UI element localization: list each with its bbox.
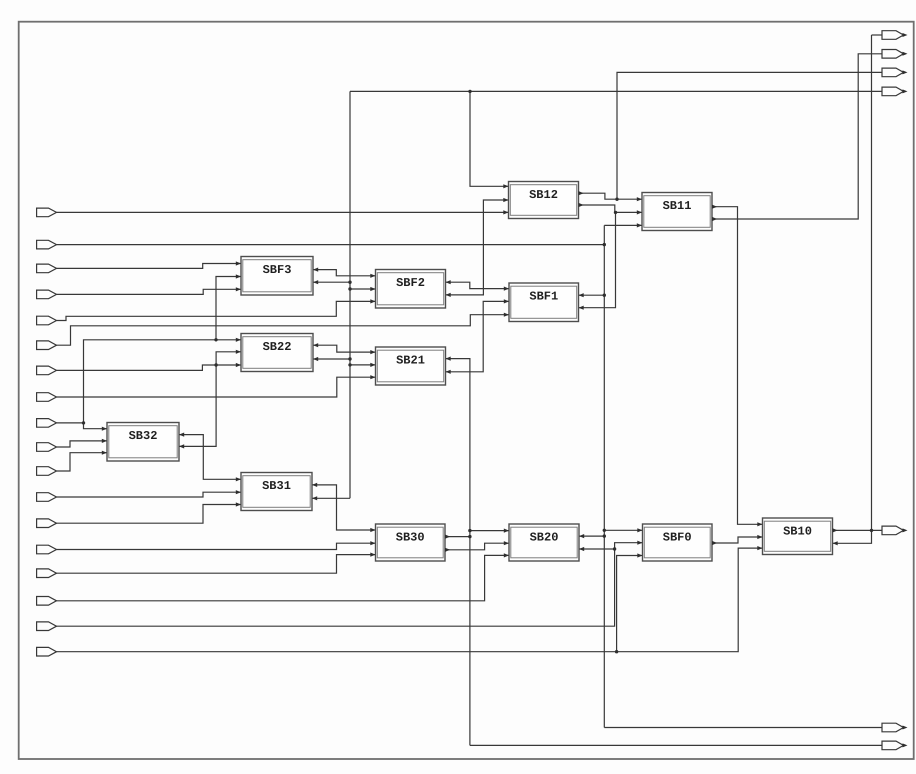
wire net P7: branch up to SB22 pin2	[216, 352, 241, 365]
junction SB10out/O1	[870, 529, 873, 532]
arrow into SB31 pin1	[236, 477, 241, 481]
wire to output port O1	[872, 34, 883, 36]
wire net P10: port to SB32 pin2	[57, 441, 108, 447]
input port P9	[37, 419, 57, 428]
wire net P8: port to SB21 pin3	[57, 377, 376, 397]
arrow into SB22 pin2	[236, 350, 241, 354]
wire trunk branch to SBF2 pin2	[350, 288, 376, 290]
wire net P3: port to SBF3 pin1	[57, 264, 242, 269]
arrow into SB32 right pin2	[179, 444, 184, 448]
block SB21	[376, 347, 446, 385]
arrow into SB22 right pin2	[313, 357, 318, 361]
input port P6	[37, 341, 57, 350]
arrow into SB11 pin2	[637, 210, 642, 214]
junction trunk/SB21	[348, 363, 351, 366]
wire net P1: port to SB12 pin3	[57, 211, 509, 213]
wire net P5: port to SBF2 pin3	[57, 301, 376, 320]
arrow into SB20 pin3	[504, 553, 509, 557]
output port O2	[882, 50, 908, 59]
input port P1	[37, 208, 57, 217]
wire net P2: port to riser	[57, 244, 605, 246]
wire net P9: branch to SB32 pin1	[84, 423, 108, 429]
block SBF3	[241, 257, 313, 296]
wire net P2: branch to SB11 pin3	[604, 224, 642, 226]
junction P18/SBF0	[615, 650, 618, 653]
wire net P12: port to SB31 pin2	[57, 492, 242, 497]
junction P7/SB32	[214, 363, 217, 366]
wire SBF3 right pin1 to SBF2 pin1	[313, 270, 376, 276]
arrow into SB21 pin3	[370, 375, 375, 379]
block SBF0	[643, 524, 713, 561]
arrow into SB21 pin1	[370, 350, 375, 354]
svg-text:SB32: SB32	[129, 429, 158, 443]
arrow into SB31 pin2	[236, 490, 241, 494]
arrow into SB10 right pin2	[833, 541, 838, 545]
junction P2/SBF0	[603, 529, 606, 532]
arrow into SB12 pin1	[503, 184, 508, 188]
arrow into SB30 pin1	[370, 528, 375, 532]
junction trunk/SB12	[468, 90, 471, 93]
input port P10	[37, 443, 57, 452]
wire SBF2 right pin1 to SBF1 pin1	[446, 282, 510, 288]
arrow into SB32 pin2	[102, 439, 107, 443]
wire SB12 out2 to SB11 pin2	[579, 205, 643, 212]
wire trunk vertical x=350	[349, 91, 351, 498]
arrow into SB32 pin3	[102, 451, 107, 455]
svg-text:SB22: SB22	[263, 340, 292, 354]
arrow into SB11 pin3	[637, 223, 642, 227]
arrow into SB20 right pin2	[579, 547, 584, 551]
arrow into SBF1 right pin1	[579, 293, 584, 297]
wire SB30 out2 to SB20 pin2	[445, 543, 509, 550]
wire net P11: port to SB32 pin3	[57, 453, 108, 471]
arrow into SBF3 pin2	[236, 274, 241, 278]
svg-text:SBF0: SBF0	[663, 531, 692, 545]
arrow SB11 out2	[712, 217, 717, 221]
arrow into SB10 pin3	[757, 546, 762, 550]
wire net P14: port to SB30 pin2	[57, 543, 376, 549]
wire net P4: port to SBF3 pin3	[57, 289, 242, 294]
junction P9/SB22	[214, 338, 217, 341]
wire SBF0 out to SB10 pin2	[712, 537, 763, 543]
wire SB21 out2 to SBF1 pin2	[446, 301, 510, 371]
wire SB21 out1 vertical trunk x=470	[446, 359, 470, 746]
arrow SB21 out1	[446, 357, 451, 361]
block SBF2	[376, 270, 446, 309]
wire net P15: port to SB30 pin3	[57, 555, 376, 574]
arrow SB31 out1	[312, 483, 317, 487]
output port O5	[882, 526, 908, 535]
input port P12	[37, 493, 57, 502]
wire trunk branch to SB21 pin2	[350, 364, 376, 366]
svg-text:SB21: SB21	[396, 354, 425, 368]
junction trunk/SB22	[348, 357, 351, 360]
input port P17	[37, 622, 57, 631]
junction P2/SB11	[603, 243, 606, 246]
wire SB10 out1 to output port O5	[833, 529, 883, 531]
arrow SBF2 out1	[446, 280, 451, 284]
arrow SB12 out2	[579, 203, 584, 207]
arrow into SB20 right pin1	[579, 534, 584, 538]
input port P13	[37, 519, 57, 528]
svg-text:SB12: SB12	[529, 188, 558, 202]
output port O7	[882, 741, 908, 750]
arrow SB32 out1	[179, 433, 184, 437]
arrow SB30 out1	[445, 535, 450, 539]
input port P2	[37, 240, 57, 249]
block SB10	[763, 518, 833, 555]
svg-text:SB11: SB11	[663, 199, 692, 213]
block SB20	[509, 524, 579, 561]
wire trunk top to output port O4	[350, 90, 882, 92]
input port P14	[37, 545, 57, 554]
arrow SB21 out2	[446, 370, 451, 374]
wire net P17: port to SBF0 pin2	[57, 543, 643, 627]
wire SB11 right pin2 to output port O2	[712, 54, 882, 219]
arrow into SBF1 pin1	[504, 287, 509, 291]
junction P2/SBF1	[603, 294, 606, 297]
wire net P18: branch to SBF0 pin3	[617, 556, 643, 652]
arrow into SB31 pin3	[236, 502, 241, 506]
arrow into SB31 right pin2	[312, 496, 317, 500]
input port P3	[37, 264, 57, 273]
wire SB31 right pin1 to SB30 pin1	[312, 485, 376, 530]
wire net P7: port to SB22 pin3	[57, 365, 242, 370]
input port P7	[37, 366, 57, 375]
block SB32	[107, 423, 179, 462]
wire net P17: branch to SB20 right pin2	[579, 548, 615, 550]
wire net P13: port to SB31 pin3	[57, 505, 242, 524]
wire net P9: riser to SBF3 pin2	[216, 277, 241, 340]
input port P5	[37, 316, 57, 325]
arrow into SB32 pin1	[102, 427, 107, 431]
wire SB12 out1 to SB11 pin1	[579, 193, 643, 199]
arrow into SBF3 right pin2	[313, 280, 318, 284]
arrow into SB30 pin3	[370, 553, 375, 557]
svg-text:SBF2: SBF2	[396, 276, 425, 290]
wire trunk branch to SB22 right pin2	[313, 358, 350, 360]
arrow into SBF0 pin1	[637, 528, 642, 532]
junction SB21out1/SB20	[468, 529, 471, 532]
output port O4	[882, 87, 908, 96]
arrow into SBF1 right pin2	[579, 306, 584, 310]
input port P4	[37, 290, 57, 299]
wire trunk bottom to SB31 right pin2	[312, 497, 350, 499]
wire SBF2 right pin2 to SB12 pin2	[446, 200, 509, 295]
input port P8	[37, 393, 57, 402]
arrow into SB22 pin1	[236, 338, 241, 342]
arrow SB11 out1	[712, 205, 717, 209]
block SB12	[509, 182, 579, 219]
output port O6	[882, 723, 908, 732]
block SB31	[241, 473, 312, 511]
wire net P6: port to SBF1 pin3	[57, 315, 510, 346]
arrow into SBF1 pin2	[504, 299, 509, 303]
junction SB21out1/SB30	[468, 535, 471, 538]
svg-text:SB31: SB31	[262, 479, 291, 493]
wire trunk branch to SBF3 right pin2	[313, 281, 350, 283]
svg-text:SBF3: SBF3	[263, 263, 292, 277]
arrow SB30 out2	[445, 548, 450, 552]
input port P16	[37, 597, 57, 606]
wire net P16: port to SB20 pin3	[57, 555, 510, 600]
block SB30	[376, 524, 446, 561]
block SB11	[642, 193, 712, 231]
arrow into SB21 pin2	[370, 363, 375, 367]
wire net P2: vertical trunk x=604	[603, 225, 605, 727]
arrow into SB30 pin2	[370, 541, 375, 545]
arrow SB10 out1	[833, 528, 838, 532]
wire branch up to output port O3	[617, 72, 882, 199]
arrow into SB22 pin3	[236, 363, 241, 367]
svg-text:SB20: SB20	[530, 531, 559, 545]
arrow into SBF2 pin3	[370, 299, 375, 303]
arrow into SB10 pin2	[757, 535, 762, 539]
junction SBF1 riser	[614, 211, 617, 214]
wire SB21 out1 branch to SB20 pin1	[470, 530, 509, 532]
arrow into SB20 pin1	[504, 529, 509, 533]
junction P17/SB20	[613, 547, 616, 550]
arrow into SB11 pin1	[637, 197, 642, 201]
input port P18	[37, 647, 57, 656]
wire net P7: branch down to SB32 right pin2	[179, 365, 216, 446]
output port O1	[882, 31, 908, 40]
wire SB21 out1 to output port O7	[470, 744, 882, 746]
wire net P2: branch to SBF1 right pin1	[579, 294, 605, 296]
output port O3	[882, 68, 908, 77]
arrow into SB12 pin3	[503, 210, 508, 214]
arrow into SBF1 pin3	[504, 313, 509, 317]
junction trunk/SBF2	[348, 287, 351, 290]
wire trunk branch to SB12 pin1	[470, 91, 509, 186]
wire net P2: branch to output port O6	[604, 727, 882, 729]
arrow into SBF2 pin2	[370, 287, 375, 291]
input port P11	[37, 467, 57, 476]
svg-text:SB10: SB10	[783, 525, 812, 539]
arrow into SBF3 pin1	[236, 261, 241, 265]
wire SB32 out1 to SB31 pin1	[179, 435, 241, 480]
svg-text:SBF1: SBF1	[529, 290, 558, 304]
arrow into SB12 pin2	[503, 198, 508, 202]
arrow SB12 out1	[579, 191, 584, 195]
wire net P9: port to junction	[57, 422, 84, 424]
wire branch down to SBF1 right pin2	[579, 212, 616, 307]
block SB22	[241, 334, 313, 372]
wire net P18: port to SB10 pin3	[57, 548, 763, 652]
junction P9	[82, 421, 85, 424]
arrow into SB10 pin1	[757, 522, 762, 526]
block SBF1	[509, 283, 579, 322]
arrow into SBF2 pin1	[370, 274, 375, 278]
wire SB11 right pin1 to SB10 pin1	[712, 207, 763, 525]
junction trunk/SBF3	[348, 281, 351, 284]
wire net P2: branch to SB20 right pin1	[579, 535, 604, 537]
arrow into SBF0 pin3	[637, 553, 642, 557]
arrow into SBF3 right pin1	[313, 268, 318, 272]
wire SB22 right pin1 to SB21 pin1	[313, 345, 376, 352]
wire SB21 out1 branch to SB30 right pin1	[445, 536, 470, 538]
arrow into SB20 pin2	[504, 541, 509, 545]
arrow SBF2 out2	[446, 293, 451, 297]
junction O3 riser	[615, 198, 618, 201]
svg-text:SB30: SB30	[396, 531, 425, 545]
arrow into SBF3 pin3	[236, 287, 241, 291]
wire net P2: branch to SBF0 pin1	[604, 529, 642, 531]
junction P2/SB20	[603, 534, 606, 537]
wire net P9: riser to SB22 pin1	[84, 340, 242, 423]
input port P15	[37, 569, 57, 578]
arrow into SBF0 pin2	[637, 541, 642, 545]
wire branch to output port O1 and SB10 right pin2	[833, 35, 872, 543]
arrow SBF0 out	[712, 541, 717, 545]
arrow into SB22 right pin1	[313, 343, 318, 347]
